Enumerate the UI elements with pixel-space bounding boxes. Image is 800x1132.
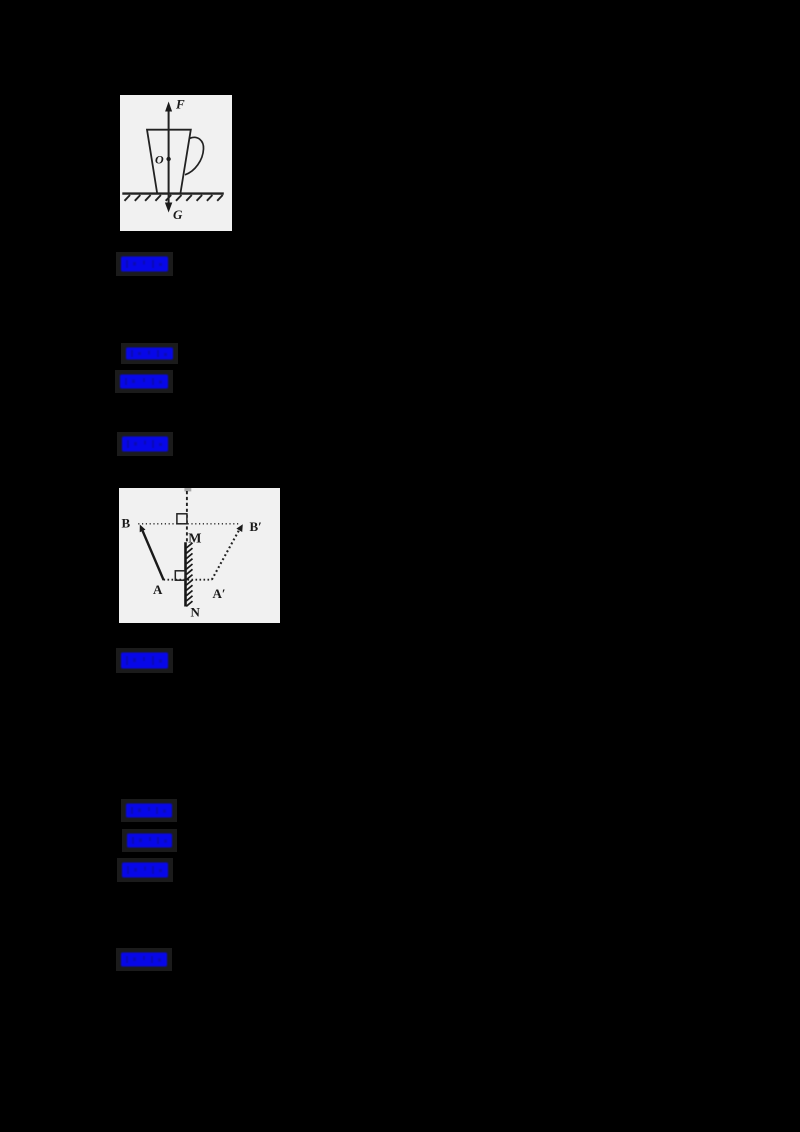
svg-text:B: B <box>122 515 131 530</box>
label 3 <box>115 370 173 393</box>
label 6 <box>121 799 177 822</box>
solid arrow A to B <box>143 531 164 580</box>
svg-text:B′: B′ <box>250 519 262 534</box>
ground hatching <box>125 195 223 201</box>
dotted line A' to B' <box>212 528 241 580</box>
svg-text:N: N <box>191 605 201 620</box>
label 1 <box>116 252 173 276</box>
dotted line B to B' <box>138 523 238 525</box>
wire: vertical force line <box>168 107 170 205</box>
arrowhead at B' <box>236 524 242 532</box>
node F arrowhead <box>165 102 172 112</box>
label 5 <box>116 648 173 673</box>
figure 1: cup on ground with forces F and G <box>120 95 232 231</box>
cup handle <box>185 137 204 174</box>
dashed normal line <box>186 491 188 542</box>
label 9 <box>116 948 172 971</box>
mirror bar MN <box>184 542 187 606</box>
label 8 <box>117 858 173 882</box>
mirror hatching <box>186 543 192 607</box>
ground line <box>122 192 224 194</box>
right-angle square bottom <box>175 571 185 580</box>
node G arrowhead <box>165 203 172 213</box>
label 4 <box>117 432 173 456</box>
gray stub at top of normal <box>184 488 191 491</box>
right-angle square top <box>177 514 187 524</box>
dotted line A to A' <box>164 579 212 581</box>
figure 2: plane mirror image construction <box>119 488 280 623</box>
label 2 <box>121 343 178 364</box>
svg-text:G: G <box>173 207 183 222</box>
cup body <box>147 130 191 194</box>
svg-text:O: O <box>155 153 164 167</box>
label 7 <box>122 829 177 852</box>
svg-text:A: A <box>153 582 163 597</box>
svg-text:F: F <box>175 97 185 112</box>
svg-text:A′: A′ <box>213 586 226 601</box>
node O dot <box>166 157 170 161</box>
